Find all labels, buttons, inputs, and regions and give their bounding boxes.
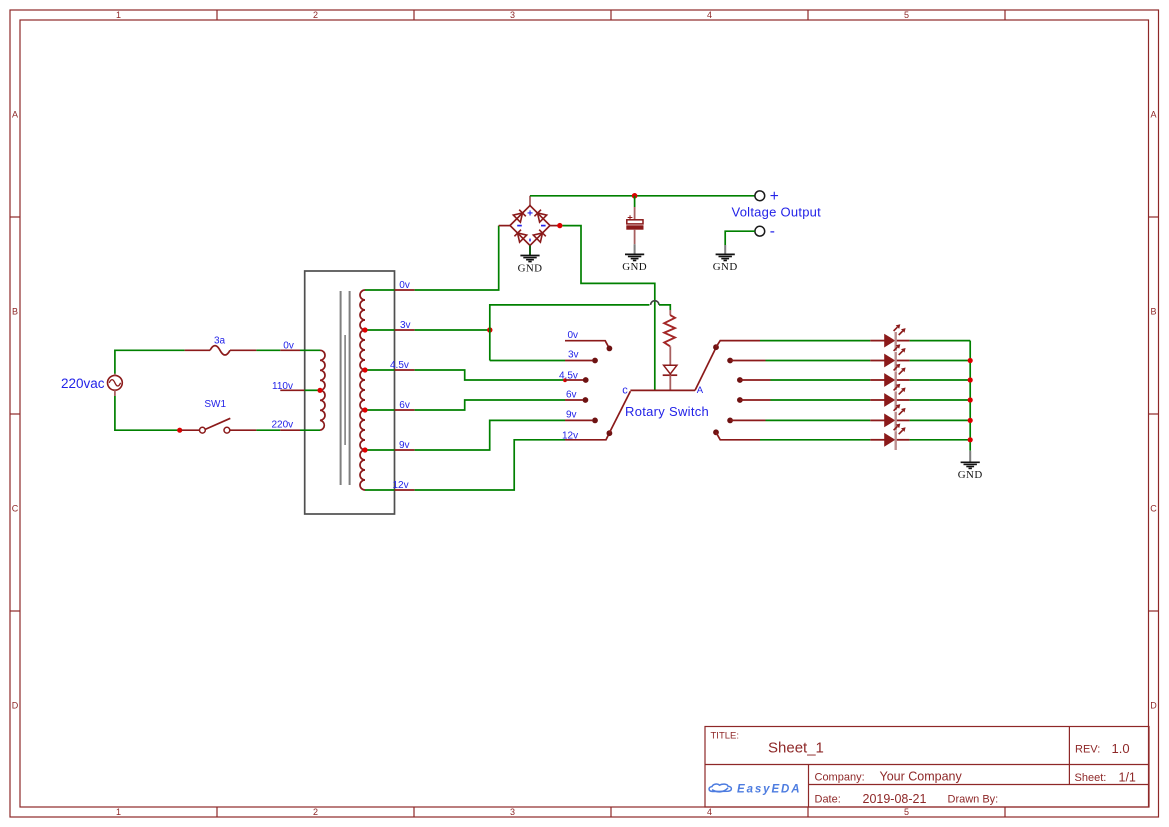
secondary winding [360,290,365,490]
svg-text:A: A [12,109,18,119]
svg-text:GND: GND [518,262,543,274]
rotary switch common wire C to A [630,389,695,391]
svg-text:220v: 220v [272,419,294,430]
transformer core [341,291,350,485]
junction dots LED bus [968,358,973,443]
junction dot top rail / capacitor [632,193,638,199]
label 6v (contact) [566,389,577,400]
svg-text:GND: GND [958,469,983,481]
LED row stubs (dark red) [716,341,771,440]
wire: row4 to LED4 [771,399,871,401]
label 3v (contact) [568,350,579,361]
wire: bridge + up to top rail [530,195,755,197]
wire: row3 to LED3 [771,379,871,381]
wire: row1 to LED1 [760,340,870,342]
svg-text:+: + [770,188,779,205]
secondary pins [365,290,415,490]
junction dots secondary taps [362,327,367,452]
diode D7 [663,365,678,390]
svg-text:C: C [1150,503,1157,513]
svg-text:SW1: SW1 [204,399,226,410]
label 3a [214,336,226,347]
wire: 4.5v tap to contact [415,370,564,380]
svg-text:D: D [1150,700,1157,710]
wire: row6 to LED6 [760,439,870,441]
label A [697,385,704,396]
svg-text:Sheet:: Sheet: [1075,772,1107,784]
wire: 3v tap riser [415,329,490,331]
fuse F1 [185,346,257,355]
ground GND (output) [713,245,738,273]
wire: source top to fuse [115,350,185,373]
svg-text:TITLE:: TITLE: [711,731,740,742]
label - [770,223,775,240]
wire: - terminal to ground [725,231,755,245]
ground GND (capacitor) [622,244,647,273]
rotary switch SW2 contacts [565,341,609,440]
svg-text:2: 2 [313,10,318,20]
label 4.5v (contact) [559,370,578,381]
label 220v [272,419,294,430]
svg-text:+: + [627,213,633,224]
wire: LED4 to bus [910,399,971,401]
label c [622,385,628,397]
label 4.5v (secondary) [390,360,409,371]
primary pins [280,350,320,430]
label Voltage Output [732,204,822,219]
ground GND (bridge) [518,246,543,275]
LED D4 [870,384,909,411]
label 0v (secondary) [399,280,410,291]
svg-text:9v: 9v [399,440,410,451]
svg-text:REV:: REV: [1075,744,1100,756]
wire: row5 to LED5 [766,419,871,421]
svg-text:B: B [12,306,18,316]
wire: hop to resistor corner [659,305,670,310]
junction dot at switch input [177,428,182,433]
primary winding [320,350,325,430]
LED selector contact dots [713,344,743,435]
svg-text:110v: 110v [272,381,293,392]
wire: LED6 to bus [910,439,971,441]
label 9v (contact) [566,410,577,421]
wire: bridge + output down and right [563,226,655,391]
svg-text:4.5v: 4.5v [390,360,409,371]
svg-text:4.5v: 4.5v [559,370,578,381]
svg-text:9v: 9v [566,410,577,421]
svg-text:EasyEDA: EasyEDA [737,783,801,795]
svg-text:4: 4 [707,10,712,20]
bridge rectifier B1 [499,196,558,246]
svg-text:4: 4 [707,807,712,817]
svg-text:A: A [697,385,704,396]
label 3v (secondary) [400,320,411,331]
wire: LED3 to bus [910,379,971,381]
wire hop over vertical [651,301,659,305]
svg-text:3v: 3v [400,320,411,331]
svg-text:5: 5 [904,10,909,20]
EasyEDA logo [709,783,801,795]
label 6v (secondary) [399,400,410,411]
LED selector lever A to row 1 [695,348,716,391]
junction dot 4.5v contact feed [563,378,567,382]
svg-text:5: 5 [904,807,909,817]
svg-text:3v: 3v [568,350,579,361]
svg-text:D: D [12,700,19,710]
label 9v (secondary) [399,440,410,451]
svg-text:0v: 0v [283,340,294,351]
svg-text:A: A [1150,109,1156,119]
wire: fuse to transformer 0v primary [256,349,280,351]
svg-text:3: 3 [510,807,515,817]
LED D3 [870,364,909,391]
wire: source bottom to switch [115,396,178,430]
wire: LED cathode bus [969,341,971,451]
svg-text:c: c [622,385,628,397]
wire: 9v tap to contact [415,420,565,450]
svg-text:2019-08-21: 2019-08-21 [863,792,927,806]
svg-text:0v: 0v [568,330,579,341]
svg-text:-: - [770,223,775,240]
wire: 3v net to rotary 3v contact [490,360,565,362]
wire: row2 to LED2 [766,360,871,362]
rotary contact dots [583,346,613,437]
AC source V1 (220vac) [108,374,123,396]
capacitor C1 [627,196,643,244]
svg-text:3: 3 [510,10,515,20]
svg-text:Date:: Date: [815,794,841,806]
LED D1 [870,324,909,351]
svg-text:6v: 6v [566,389,577,400]
svg-text:1.0: 1.0 [1112,741,1130,756]
resistor R1 [664,310,675,365]
svg-text:+: + [527,209,533,220]
svg-text:1: 1 [116,10,121,20]
junction dot primary 110v tap [317,388,322,393]
switch SW1 [182,418,257,433]
junction dot bridge + output [557,223,562,228]
label 110v [272,381,293,392]
label SW1 [204,399,226,410]
label + [770,188,779,205]
svg-text:1/1: 1/1 [1119,771,1136,785]
svg-text:1: 1 [116,807,121,817]
label Rotary Switch [625,404,709,419]
svg-text:2: 2 [313,807,318,817]
junction dot 3v tap [487,327,492,332]
wire: switch to transformer 220v primary [256,429,280,431]
svg-text:Company:: Company: [815,772,865,784]
svg-text:Your Company: Your Company [880,770,963,784]
label 12v (contact) [562,430,578,441]
svg-text:6v: 6v [399,400,410,411]
LED D6 [870,424,909,451]
svg-text:Drawn By:: Drawn By: [948,794,999,806]
wire: 6v tap to contact [415,400,565,410]
svg-text:Sheet_1: Sheet_1 [768,740,824,757]
svg-text:12v: 12v [562,430,578,441]
svg-text:3a: 3a [214,336,226,347]
svg-text:0v: 0v [399,280,410,291]
transformer body box [305,271,395,514]
wire: LED2 to bus [910,360,971,362]
label 220vac [61,376,105,391]
wire: 12v tap to contact [415,440,565,490]
svg-text:12v: 12v [393,480,409,491]
title block [705,727,1149,808]
label 12v (secondary) [393,480,409,491]
svg-text:Rotary Switch: Rotary Switch [625,404,709,419]
svg-text:GND: GND [713,261,738,273]
output terminal - [755,226,765,236]
LED D2 [870,344,909,371]
wire: 0v secondary to bridge AC left [415,226,499,290]
label 0v (contact) [568,330,579,341]
svg-text:B: B [1150,306,1156,316]
LED D5 [870,404,909,431]
wire: LED5 to bus [910,419,971,421]
rotary lever C to 12v [609,391,630,433]
wire: LED1 to bus [910,340,971,342]
svg-text:Voltage Output: Voltage Output [732,204,822,219]
ground GND (LED bus) [958,451,983,481]
wire: 3v net vertical and top feed to resistor [490,305,650,361]
svg-text:C: C [12,503,19,513]
label 0v (primary) [283,340,294,351]
output terminal + [755,191,765,201]
svg-text:GND: GND [622,261,647,273]
svg-text:220vac: 220vac [61,376,105,391]
